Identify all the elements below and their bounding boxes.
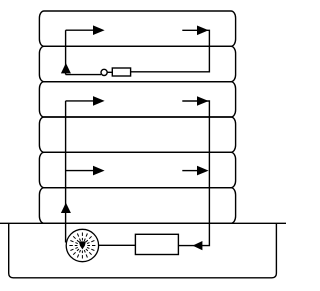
up arrow 2 bbox=[61, 203, 71, 213]
lamp centre mark bbox=[79, 241, 86, 249]
wire stub circle to resistor bbox=[107, 71, 112, 73]
coil loop 6 bbox=[39, 188, 235, 224]
coil loop 5 bbox=[39, 152, 235, 187]
terminal circle bbox=[101, 69, 107, 75]
arrow row5 left bbox=[66, 170, 95, 172]
arrow row1 right bbox=[182, 29, 199, 31]
bottom housing box bbox=[9, 223, 277, 277]
lamp L1 bbox=[66, 229, 98, 261]
coil loop 4 bbox=[39, 117, 235, 152]
arrow row3 left bbox=[66, 100, 95, 102]
coil loop 1 bbox=[39, 11, 235, 46]
up arrow 1 bbox=[61, 63, 71, 73]
coil loop 2 bbox=[39, 46, 235, 81]
arrow row5 right bbox=[182, 170, 197, 172]
resistor R1 (loop 2) bbox=[112, 68, 130, 76]
wire left riser lower segment bbox=[65, 101, 67, 243]
wire top-right corner bbox=[131, 30, 210, 72]
wire junction to circle bbox=[66, 74, 101, 76]
wire left riser upper segment bbox=[65, 30, 67, 74]
wire resistor to lamp bbox=[99, 244, 136, 246]
arrow row1 left bbox=[66, 29, 95, 31]
wire right riser lower segment bbox=[178, 101, 209, 246]
left arrow on bottom wire bbox=[193, 241, 203, 250]
resistor R2 (bottom) bbox=[135, 234, 178, 254]
ceiling line bbox=[0, 222, 286, 224]
coil loop 3 bbox=[39, 82, 235, 117]
arrow row3 right bbox=[182, 100, 199, 102]
